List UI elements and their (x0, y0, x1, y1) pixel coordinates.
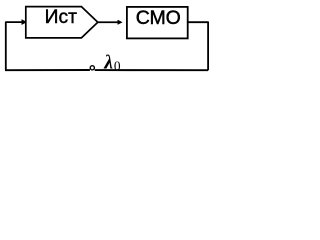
node circle on feedback line (90, 66, 94, 70)
svg-text:λ: λ (103, 52, 113, 74)
wire: feedback left vertical + entry horizontal (6, 22, 22, 70)
svg-text:0: 0 (114, 58, 121, 73)
svg-text:Ист: Ист (45, 7, 77, 28)
svg-text:СМО: СМО (136, 7, 181, 29)
wire: exit from CMO + right vertical (188, 22, 208, 70)
wire: bottom feedback horizontal (right of node) (95, 69, 208, 71)
wire: bottom feedback horizontal (left of node) (5, 69, 90, 71)
source block Ist (pentagon) (26, 7, 98, 38)
wire: Ist tip to arrow (98, 21, 118, 23)
arrowhead into Ist block (22, 20, 27, 25)
arrowhead into CMO box (118, 20, 122, 24)
CMO block (rectangle) (127, 7, 188, 39)
